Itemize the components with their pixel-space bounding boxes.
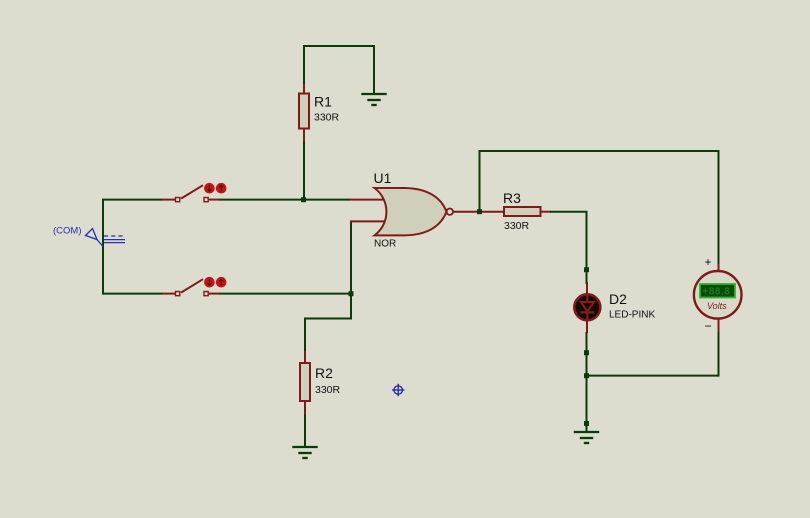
svg-text:LED-PINK: LED-PINK — [609, 310, 655, 321]
node junction (output node) — [477, 209, 482, 214]
wire: junction up to NOR lower input — [350, 221, 352, 294]
U1 output bubble — [447, 209, 453, 215]
svg-text:R3: R3 — [503, 190, 521, 206]
gate U1 input pin 2 — [350, 220, 388, 222]
svg-text:330R: 330R — [504, 220, 530, 232]
terminal (COM) — [53, 226, 125, 247]
wire: junction to LED — [586, 270, 588, 284]
svg-text:U1: U1 — [374, 170, 392, 186]
svg-text:R1: R1 — [314, 94, 332, 110]
wire: output node up over to voltmeter — [480, 151, 719, 266]
switch SW1 (top) — [162, 183, 227, 202]
wire: tee to voltmeter bottom — [587, 375, 719, 377]
node junction above ground — [584, 421, 589, 426]
origin marker — [392, 384, 404, 396]
svg-text:+88.8: +88.8 — [703, 287, 731, 298]
voltmeter VM1 — [694, 255, 742, 333]
svg-text:330R: 330R — [315, 384, 341, 396]
diode D2 (LED) — [574, 282, 600, 333]
gate U1 NOR body — [375, 188, 447, 235]
wire: left vertical between switch rows — [102, 199, 104, 295]
ground (below R2) — [292, 447, 317, 458]
svg-text:D2: D2 — [609, 291, 627, 307]
wire: R1 bottom to junction — [303, 141, 305, 200]
node junction above D2 — [584, 267, 589, 272]
svg-text:−: − — [705, 319, 712, 333]
wire: R1 top to ground top loop — [304, 46, 374, 141]
wire: top switch row — [103, 199, 163, 201]
svg-text:+: + — [705, 255, 712, 269]
wire: R2 bottom to ground — [304, 414, 306, 447]
wire: voltmeter bottom to tee — [718, 330, 720, 377]
node junction below D2 — [584, 350, 589, 355]
gate U1 input pin 1 — [349, 199, 388, 201]
ground (below D2) — [574, 432, 599, 443]
resistor R3 — [504, 207, 551, 216]
resistor R1 — [299, 84, 309, 142]
svg-text:Volts: Volts — [707, 301, 727, 311]
resistor R2 — [300, 351, 310, 415]
svg-text:330R: 330R — [314, 112, 340, 124]
svg-text:NOR: NOR — [374, 239, 396, 250]
wire: R3 right down to LED — [550, 212, 587, 270]
ground (top right) — [361, 94, 386, 105]
node junction (bottom input / R2 branch) — [349, 291, 354, 296]
wire: LED bottom to ground tee — [586, 332, 588, 432]
wire: gate output to junction and R3 — [453, 211, 504, 213]
svg-text:(COM): (COM) — [53, 226, 82, 237]
wire: junction down to R2 — [305, 294, 351, 352]
switch SW2 (bottom) — [162, 277, 227, 296]
node junction tee to voltmeter — [584, 373, 589, 378]
svg-text:R2: R2 — [315, 365, 333, 381]
wire: bottom switch row — [103, 293, 163, 295]
node junction (R1 / top input) — [301, 197, 306, 202]
